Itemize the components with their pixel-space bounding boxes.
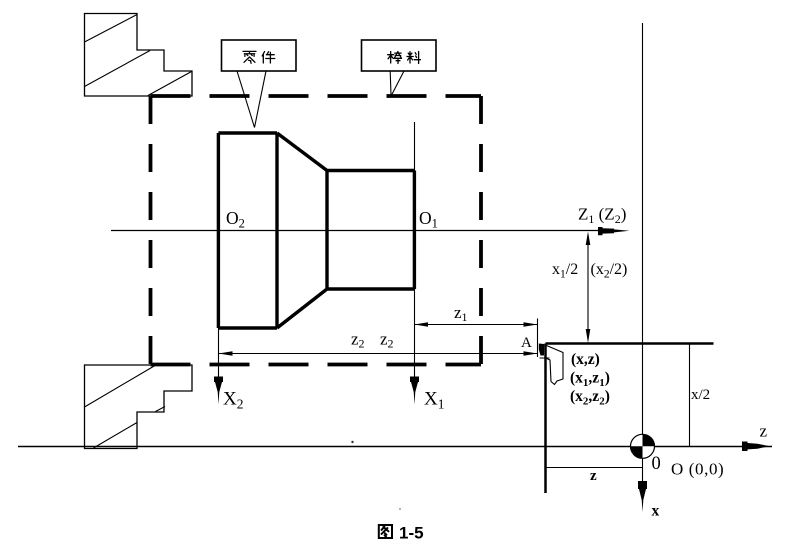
z dimension bottom [546, 467, 643, 469]
svg-text:x/2: x/2 [691, 387, 710, 403]
svg-text:0: 0 [652, 454, 661, 474]
stray dot above caption [399, 508, 401, 510]
svg-text:(x2/2): (x2/2) [591, 261, 628, 281]
svg-text:x: x [652, 503, 660, 520]
x axis down [642, 458, 644, 481]
svg-text:z: z [760, 422, 768, 441]
bottom Z axis [18, 446, 772, 448]
glyph 零 [243, 51, 256, 63]
svg-text:z: z [590, 468, 597, 484]
tool insert (black) [539, 344, 545, 356]
svg-text:(x1,z1): (x1,z1) [570, 370, 610, 390]
z1 dimension [415, 324, 538, 326]
leader [237, 71, 266, 128]
X2 arrow [214, 377, 223, 405]
svg-text:A: A [521, 335, 532, 351]
caption 图 1-5 [379, 525, 392, 538]
label box 零件 [222, 40, 297, 128]
x/2 dimension line [689, 344, 691, 447]
svg-text:(x,z): (x,z) [571, 351, 600, 368]
part profile [218, 133, 414, 328]
svg-text:x1/2: x1/2 [552, 261, 578, 281]
X1 arrow [410, 377, 419, 405]
origin symbol [631, 434, 655, 458]
extension line for z dims [537, 319, 539, 358]
long vertical spindle line [642, 23, 644, 447]
tool holder outline [540, 346, 564, 385]
z2 dimension [219, 353, 538, 355]
leader [390, 71, 404, 95]
svg-text:O (0,0): O (0,0) [671, 460, 724, 479]
svg-text:(x2,z2): (x2,z2) [570, 388, 610, 408]
glyph 棒 [388, 52, 402, 64]
dashed stock rectangle [151, 96, 482, 365]
glyph 件 [262, 52, 275, 64]
glyph 料 [407, 52, 420, 64]
stray dot near axis [351, 441, 353, 443]
chuck jaw top [85, 14, 193, 97]
svg-text:1-5: 1-5 [399, 524, 424, 543]
Z1 arrow [598, 227, 630, 235]
x1/2 dimension [587, 235, 589, 339]
chuck jaw bottom [85, 365, 193, 449]
label box 棒料 [362, 40, 437, 95]
centerline axis [111, 230, 605, 232]
tool corner thick lines [546, 344, 714, 494]
thin extension X1 line [414, 122, 416, 377]
thin extension X2 line [218, 328, 220, 377]
